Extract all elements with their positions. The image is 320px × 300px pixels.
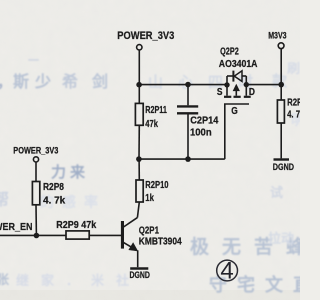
circuit ink — [0, 43, 289, 269]
wire — [138, 50, 140, 85]
transistor Q2P1 base bar — [121, 221, 124, 248]
svg-text:S: S — [217, 86, 223, 97]
svg-text:斯少: 斯少 — [13, 72, 57, 91]
wire POWER_EN — [0, 234, 66, 236]
resistor R2P12 — [280, 85, 282, 100]
ground DGND (right) — [274, 158, 290, 160]
svg-text:G: G — [231, 105, 238, 116]
svg-text:剑: 剑 — [91, 72, 108, 91]
body diode of Q2P2 — [226, 76, 228, 85]
svg-text:R2P9 47k: R2P9 47k — [56, 220, 97, 232]
svg-text:R2P10: R2P10 — [145, 179, 168, 190]
svg-text:100n: 100n — [190, 127, 212, 138]
resistor R2P11 — [138, 85, 140, 104]
wire top rail right — [246, 84, 281, 86]
svg-text:DGND: DGND — [273, 161, 294, 172]
svg-text:47k: 47k — [145, 118, 158, 129]
bleed-through blue text (decorative) — [0, 55, 320, 295]
emitter with arrow — [124, 243, 136, 250]
svg-text:AO3401A: AO3401A — [219, 58, 258, 69]
svg-text:POWER_3V3: POWER_3V3 — [13, 146, 58, 156]
svg-text:刷: 刷 — [287, 61, 300, 76]
svg-text:力来: 力来 — [51, 163, 89, 181]
power terminal M3V3 — [278, 43, 284, 49]
wire bottom rail — [139, 158, 225, 160]
svg-text:一: 一 — [28, 55, 39, 67]
wire gate — [225, 104, 249, 159]
capacitor C2P14 — [187, 85, 189, 106]
svg-text:张: 张 — [0, 272, 10, 287]
svg-text:，: ， — [0, 74, 12, 91]
svg-text:M3V3: M3V3 — [268, 30, 287, 41]
svg-text:4. 7k: 4. 7k — [43, 196, 66, 207]
svg-text:拉动: 拉动 — [268, 231, 294, 246]
svg-text:1k: 1k — [145, 192, 154, 203]
resistor R2P9 — [66, 231, 89, 239]
svg-text:DGND: DGND — [130, 269, 150, 280]
junction node dots — [34, 82, 284, 239]
svg-text:R2P1: R2P1 — [287, 97, 300, 108]
svg-text:POWER_3V3: POWER_3V3 — [117, 30, 174, 42]
transistor Q2P2 mosfet: source stub — [226, 85, 228, 96]
svg-text:Q2P2: Q2P2 — [220, 45, 239, 56]
svg-text:R2P11: R2P11 — [145, 104, 167, 115]
resistor R2P10 — [138, 159, 140, 180]
svg-text:4. 7k: 4. 7k — [287, 109, 300, 120]
resistor R2P8 — [35, 162, 37, 182]
wire top rail left — [139, 84, 227, 86]
svg-text:R2P8: R2P8 — [43, 181, 64, 192]
wire — [280, 49, 282, 85]
collector — [124, 218, 138, 227]
svg-text:款: 款 — [272, 72, 288, 90]
mosfet body arrow — [235, 90, 237, 96]
svg-text:Q2P1: Q2P1 — [139, 225, 159, 236]
svg-text:D: D — [249, 86, 255, 97]
svg-text:C2P14: C2P14 — [190, 115, 219, 126]
mosfet drain stub — [245, 85, 247, 96]
power terminal POWER_3V3 (top) — [137, 45, 142, 50]
ground DGND (bottom) — [130, 267, 148, 269]
svg-text:KMBT3904: KMBT3904 — [139, 236, 183, 247]
svg-text:帮: 帮 — [0, 191, 9, 209]
svg-text:继家．米社: 继家．米社 — [16, 273, 141, 288]
power terminal POWER_3V3 (left) — [33, 157, 38, 162]
svg-text:试: 试 — [270, 185, 283, 200]
svg-text:希: 希 — [62, 72, 78, 91]
svg-text:POWER_EN: POWER_EN — [0, 222, 33, 234]
figure number 4 (circled) — [217, 257, 238, 284]
svg-text:4: 4 — [220, 257, 233, 284]
